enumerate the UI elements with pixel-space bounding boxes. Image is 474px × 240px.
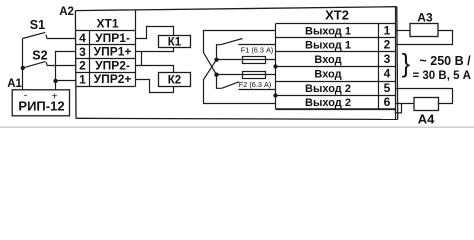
wire XT1 pin3 to relay K1 bottom — [136, 48, 174, 52]
svg-text:F1 (6.3 А): F1 (6.3 А) — [241, 45, 273, 54]
svg-text:-: - — [24, 91, 27, 102]
svg-text:2: 2 — [384, 38, 391, 52]
terminal block XT2 — [276, 7, 396, 119]
wire XT2 pin1 to load A3 — [396, 30, 411, 32]
scan artifact bottom gray line — [0, 126, 474, 128]
wire contact K2.1 fixed to bus — [239, 89, 276, 91]
terminal block XT1 — [76, 10, 136, 87]
svg-text:1: 1 — [384, 23, 391, 37]
svg-text:5: 5 — [384, 81, 391, 95]
svg-text:Выход 2: Выход 2 — [305, 83, 351, 95]
switch S1 — [23, 32, 47, 38]
contact K1.1 — [217, 39, 243, 60]
svg-text:УПР2-: УПР2- — [95, 58, 130, 72]
svg-text:УПР2+: УПР2+ — [94, 72, 132, 86]
svg-text:А3: А3 — [417, 10, 433, 24]
wire XT1 pin1 to relay K2 bottom — [136, 80, 174, 93]
svg-text:}: } — [402, 50, 411, 78]
node F2 input junction dot — [214, 73, 218, 77]
wire through fuse F2 — [217, 74, 276, 76]
svg-text:3: 3 — [384, 52, 391, 66]
svg-text:Выход 1: Выход 1 — [305, 40, 351, 52]
node S2 junction dot — [21, 66, 25, 70]
svg-text:4: 4 — [384, 67, 391, 81]
svg-text:3: 3 — [79, 45, 86, 59]
svg-text:Вход: Вход — [314, 54, 341, 66]
load A3 box — [410, 24, 438, 37]
wire load A3 back to XT2 pin2 — [396, 31, 453, 45]
svg-text:А1: А1 — [7, 78, 22, 90]
wire XT2 bottom merged with output2 wire — [276, 108, 396, 110]
wire XT1 pin2 to relay K2 top — [136, 66, 174, 73]
wire plus to XT1 pin 1 — [56, 80, 76, 82]
svg-text:Выход 1: Выход 1 — [305, 25, 351, 37]
svg-text:К2: К2 — [168, 75, 181, 87]
wire contact K1.1 fixed to bus — [238, 44, 275, 46]
svg-text:= 30 В, 5 А: = 30 В, 5 А — [413, 70, 472, 82]
fuse F1 — [243, 57, 266, 64]
device box A2 outline — [75, 7, 397, 120]
wire jumper pin3 wire to pin2 wire — [141, 52, 143, 66]
relay K1 box — [159, 36, 191, 48]
wire crossing lower to F1 node — [204, 60, 276, 104]
svg-text:+: + — [52, 92, 58, 103]
wire XT2 pin6 to load A4 — [396, 103, 415, 105]
switch S2 — [23, 62, 47, 68]
node plus junction dot — [53, 79, 57, 83]
svg-text:S2: S2 — [32, 48, 47, 62]
svg-text:Выход 2: Выход 2 — [305, 97, 351, 109]
svg-text:УПР1+: УПР1+ — [94, 45, 132, 59]
svg-text:6: 6 — [384, 95, 391, 109]
load A4 box — [414, 98, 439, 111]
wire XT2 pin5 to load A4 — [396, 89, 453, 104]
svg-text:ХТ1: ХТ1 — [96, 16, 118, 30]
wire crossing upper to F2 node — [204, 31, 276, 75]
svg-text:2: 2 — [79, 59, 86, 73]
svg-text:К1: К1 — [168, 37, 182, 49]
relay K2 box — [159, 73, 191, 87]
node bus output2 junction dot — [273, 93, 277, 97]
svg-text:ХТ2: ХТ2 — [325, 8, 349, 23]
fuse F2 — [243, 72, 266, 79]
wire S2 to XT1 pin 2 — [47, 65, 76, 67]
svg-text:F2 (6.3 А): F2 (6.3 А) — [239, 80, 271, 89]
svg-text:S1: S1 — [30, 18, 45, 32]
svg-text:УПР1-: УПР1- — [95, 31, 130, 45]
node F1 input junction dot — [214, 58, 218, 62]
svg-text:Вход: Вход — [314, 69, 341, 81]
wire internal bus vertical — [275, 24, 277, 109]
svg-text:~ 250 В /: ~ 250 В / — [420, 54, 472, 68]
svg-text:4: 4 — [79, 31, 86, 45]
node bus input junction dot — [273, 64, 277, 68]
svg-text:А4: А4 — [418, 112, 435, 127]
wire XT1 pin4 to relay K1 top — [136, 27, 174, 39]
wire plus rail — [56, 52, 76, 90]
power supply A1 RIP-12 box — [12, 90, 69, 116]
wire through fuse F1 — [217, 59, 276, 61]
wire output2 hook to pin6 — [396, 104, 402, 113]
contact K2.1 — [217, 75, 240, 89]
svg-text:А2: А2 — [59, 6, 74, 18]
wire minus rail — [22, 39, 24, 90]
svg-text:1: 1 — [79, 72, 86, 86]
wire S1 to XT1 pin 4 — [47, 38, 76, 40]
